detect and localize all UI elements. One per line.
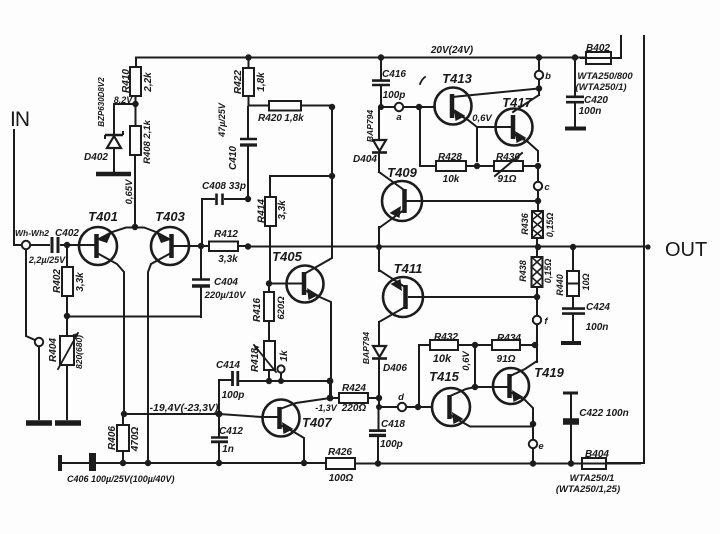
svg-text:T407: T407 — [302, 415, 332, 430]
svg-text:3,3k: 3,3k — [75, 272, 86, 292]
svg-text:C422 100n: C422 100n — [579, 408, 628, 419]
svg-text:0,15Ω: 0,15Ω — [543, 259, 553, 284]
svg-text:BAP794: BAP794 — [361, 332, 371, 364]
svg-text:R406: R406 — [107, 426, 118, 450]
svg-text:R422: R422 — [233, 70, 244, 94]
svg-text:C412: C412 — [219, 426, 243, 437]
svg-text:WTA250/800: WTA250/800 — [577, 71, 633, 82]
svg-text:3,3k: 3,3k — [218, 254, 238, 265]
svg-text:220µ/10V: 220µ/10V — [204, 290, 247, 301]
svg-text:91Ω: 91Ω — [497, 354, 516, 365]
svg-text:1k: 1k — [279, 350, 290, 362]
svg-text:-1,3V: -1,3V — [315, 403, 338, 413]
svg-text:C420: C420 — [584, 95, 608, 106]
svg-text:R436: R436 — [520, 212, 530, 235]
svg-text:C410: C410 — [228, 146, 239, 170]
svg-text:BZP630D8V2: BZP630D8V2 — [97, 77, 106, 127]
svg-text:B404: B404 — [585, 449, 609, 460]
svg-text:0,6V: 0,6V — [472, 113, 492, 124]
svg-text:C404: C404 — [214, 277, 238, 288]
svg-text:R414: R414 — [257, 199, 268, 223]
svg-text:100n: 100n — [579, 106, 602, 117]
svg-text:R430: R430 — [496, 152, 520, 163]
svg-text:T413: T413 — [442, 71, 472, 86]
svg-text:IN: IN — [10, 108, 29, 131]
svg-text:T415: T415 — [429, 369, 459, 384]
svg-text:D402: D402 — [84, 152, 108, 163]
svg-text:D404: D404 — [353, 154, 377, 165]
svg-text:1n: 1n — [222, 444, 234, 455]
svg-text:R412: R412 — [214, 229, 238, 240]
svg-text:R404: R404 — [48, 338, 59, 362]
svg-text:10k: 10k — [433, 353, 452, 365]
svg-text:B402: B402 — [586, 43, 610, 54]
svg-text:8,2V: 8,2V — [114, 95, 134, 105]
svg-text:220Ω: 220Ω — [341, 403, 367, 414]
svg-text:T405: T405 — [272, 249, 302, 264]
svg-text:a: a — [396, 112, 401, 123]
svg-text:C424: C424 — [586, 302, 610, 313]
svg-text:T419: T419 — [534, 365, 564, 380]
svg-text:R420: R420 — [258, 113, 282, 124]
svg-text:C408 33p: C408 33p — [202, 181, 246, 192]
svg-text:47µ/25V: 47µ/25V — [217, 102, 227, 138]
svg-text:T411: T411 — [394, 261, 423, 276]
svg-text:3,3k: 3,3k — [277, 200, 288, 220]
svg-text:10Ω: 10Ω — [581, 273, 591, 290]
svg-text:R424: R424 — [342, 383, 366, 394]
svg-text:Wh-Wh2: Wh-Wh2 — [15, 228, 49, 238]
svg-text:100p: 100p — [222, 390, 245, 401]
svg-text:R402: R402 — [52, 269, 63, 293]
svg-text:(WTA250/1,25): (WTA250/1,25) — [556, 484, 620, 495]
svg-text:10k: 10k — [443, 174, 460, 185]
svg-text:100p: 100p — [383, 90, 406, 101]
svg-text:20V(24V): 20V(24V) — [430, 45, 474, 56]
svg-text:R440: R440 — [555, 274, 565, 296]
svg-text:R410: R410 — [121, 69, 132, 93]
svg-text:R428: R428 — [438, 152, 462, 163]
svg-text:91Ω: 91Ω — [498, 174, 517, 185]
svg-text:R418: R418 — [250, 348, 261, 372]
svg-text:T401: T401 — [88, 209, 118, 224]
svg-text:1,8k: 1,8k — [284, 113, 304, 124]
svg-text:470Ω: 470Ω — [130, 427, 141, 453]
svg-text:T403: T403 — [155, 209, 185, 224]
svg-text:820(680): 820(680) — [74, 335, 84, 369]
svg-text:2,2µ/25V: 2,2µ/25V — [28, 255, 66, 265]
svg-text:C418: C418 — [381, 419, 405, 430]
svg-text:R432: R432 — [434, 332, 458, 343]
svg-text:C416: C416 — [382, 69, 406, 80]
svg-text:T409: T409 — [387, 165, 417, 180]
svg-text:T417: T417 — [502, 95, 532, 110]
svg-text:c: c — [544, 182, 550, 193]
svg-text:R408 2,1k: R408 2,1k — [142, 119, 153, 164]
svg-text:C406 100µ/25V(100µ/40V): C406 100µ/25V(100µ/40V) — [67, 474, 174, 484]
svg-text:1,8k: 1,8k — [256, 72, 267, 92]
svg-text:OUT: OUT — [665, 239, 707, 261]
svg-text:R438: R438 — [518, 260, 528, 282]
svg-text:e: e — [538, 441, 544, 452]
svg-text:100n: 100n — [586, 322, 609, 333]
svg-text:0,65V: 0,65V — [124, 179, 135, 204]
svg-text:C402: C402 — [55, 228, 79, 239]
svg-text:WTA250/1: WTA250/1 — [570, 473, 615, 484]
svg-text:BAP794: BAP794 — [365, 110, 375, 142]
svg-text:0,15Ω: 0,15Ω — [545, 213, 555, 238]
svg-text:C414: C414 — [216, 360, 240, 371]
svg-text:(WTA250/1): (WTA250/1) — [575, 82, 626, 93]
svg-text:R426: R426 — [328, 447, 352, 458]
svg-text:100Ω: 100Ω — [329, 473, 354, 484]
svg-text:R416: R416 — [252, 298, 263, 322]
svg-text:0,6V: 0,6V — [461, 351, 472, 371]
svg-text:D406: D406 — [383, 363, 407, 374]
svg-text:d: d — [398, 392, 404, 403]
svg-text:2,2k: 2,2k — [143, 72, 154, 93]
svg-text:620Ω: 620Ω — [276, 296, 287, 320]
svg-text:-19,4V(-23,3V): -19,4V(-23,3V) — [150, 402, 219, 414]
svg-text:100p: 100p — [380, 439, 403, 450]
svg-text:R434: R434 — [497, 333, 521, 344]
svg-text:b: b — [545, 71, 551, 82]
svg-text:f: f — [544, 316, 548, 327]
